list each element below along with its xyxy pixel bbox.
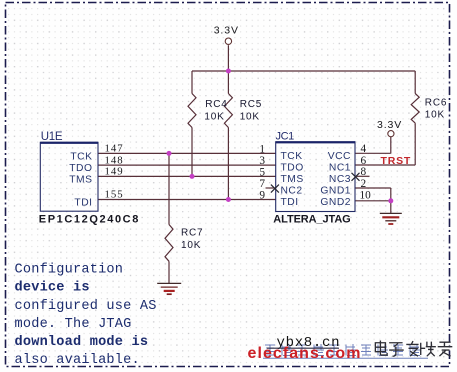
svg-text:GND2: GND2 (320, 197, 351, 208)
svg-text:10K: 10K (425, 109, 445, 120)
svg-text:7: 7 (259, 178, 265, 190)
svg-text:10K: 10K (240, 112, 260, 123)
svg-text:TMS: TMS (69, 174, 92, 185)
svg-text:NC3: NC3 (329, 174, 351, 185)
svg-text:TCK: TCK (70, 151, 92, 162)
svg-text:device is: device is (15, 281, 90, 296)
svg-text:ALTERA_JTAG: ALTERA_JTAG (273, 213, 350, 225)
svg-text:3.3V: 3.3V (214, 24, 239, 36)
svg-text:TDI: TDI (281, 197, 299, 208)
svg-text:mode. The JTAG: mode. The JTAG (15, 317, 132, 332)
svg-text:TDO: TDO (69, 163, 92, 174)
svg-text:10: 10 (360, 190, 372, 202)
svg-text:VCC: VCC (328, 151, 351, 162)
svg-text:RC7: RC7 (181, 228, 203, 239)
svg-text:1: 1 (259, 143, 265, 155)
svg-text:RC5: RC5 (240, 99, 262, 110)
svg-text:also available.: also available. (15, 353, 140, 368)
svg-text:RC4: RC4 (205, 99, 227, 110)
svg-text:TCK: TCK (281, 151, 303, 162)
svg-text:EP1C12Q240C8: EP1C12Q240C8 (39, 214, 140, 226)
svg-text:5: 5 (259, 166, 265, 178)
svg-text:6: 6 (361, 155, 367, 167)
svg-text:149: 149 (105, 166, 124, 178)
svg-text:8: 8 (361, 166, 367, 178)
svg-text:Configuration: Configuration (15, 263, 124, 278)
svg-text:U1E: U1E (41, 131, 63, 143)
svg-text:2: 2 (361, 178, 367, 190)
svg-text:TRST: TRST (381, 155, 412, 167)
svg-text:NC1: NC1 (329, 163, 351, 174)
svg-text:148: 148 (105, 154, 124, 166)
svg-text:GND1: GND1 (320, 186, 351, 197)
svg-text:4: 4 (361, 143, 367, 155)
svg-text:JC1: JC1 (276, 130, 295, 142)
svg-text:155: 155 (105, 189, 124, 201)
svg-text:10K: 10K (181, 240, 201, 251)
svg-text:9: 9 (259, 190, 265, 202)
svg-text:elecfans.com: elecfans.com (248, 345, 362, 362)
svg-text:TMS: TMS (281, 174, 304, 185)
svg-text:download mode is: download mode is (15, 335, 149, 350)
svg-text:10K: 10K (204, 112, 224, 123)
svg-text:3: 3 (259, 155, 265, 167)
svg-text:NC2: NC2 (281, 186, 303, 197)
svg-text:TDI: TDI (74, 198, 92, 209)
svg-text:configured use AS: configured use AS (15, 299, 157, 314)
svg-text:147: 147 (105, 143, 124, 155)
svg-text:TDO: TDO (281, 163, 304, 174)
svg-text:3.3V: 3.3V (377, 119, 402, 131)
svg-text:RC6: RC6 (425, 97, 447, 108)
